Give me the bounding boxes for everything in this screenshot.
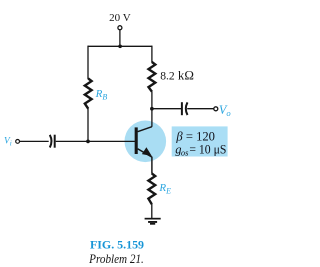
svg-text:Vi: Vi: [4, 136, 12, 147]
transistor Q1 body circle: [125, 121, 167, 163]
node collector output tap dot: [150, 107, 154, 111]
ground: [145, 218, 161, 225]
transistor Q1 base bar: [135, 127, 138, 154]
wire right branch upper: [151, 46, 153, 63]
wire supply lead: [119, 30, 121, 47]
wire RE to ground: [151, 204, 153, 218]
resistor RB: [85, 79, 92, 109]
wire base: [56, 140, 135, 142]
capacitor Co straight plate: [181, 102, 183, 115]
terminal Vi: [16, 140, 20, 144]
svg-text:β = 120: β = 120: [175, 129, 215, 143]
capacitor Ci straight plate: [54, 135, 56, 148]
wire top rail: [88, 45, 152, 47]
wire left branch upper: [87, 46, 89, 79]
transistor Q1 emitter lead: [138, 149, 152, 174]
capacitor Co curved plate: [186, 102, 188, 115]
terminal Vo: [214, 107, 218, 111]
parameter box beta/gos: [172, 126, 228, 156]
wire to output capacitor: [152, 108, 181, 110]
resistor RC 8.2k: [149, 62, 156, 92]
svg-text:FIG. 5.159: FIG. 5.159: [90, 239, 144, 251]
wire right branch middle: [151, 91, 153, 126]
svg-text:8.2kΩ: 8.2kΩ: [160, 69, 194, 83]
transistor Q1 collector lead: [138, 127, 152, 132]
wire capacitor to Vo terminal: [187, 108, 214, 110]
transistor Q1 emitter arrow: [142, 147, 152, 156]
wire left branch lower: [87, 109, 89, 142]
svg-text:20 V: 20 V: [109, 12, 131, 24]
svg-text:Problem 21.: Problem 21.: [88, 252, 144, 266]
node base junction dot: [86, 140, 90, 144]
node top junction dot: [118, 44, 122, 48]
resistor RE: [148, 174, 155, 205]
terminal 20V: [118, 26, 122, 30]
wire Vi to capacitor: [20, 140, 49, 142]
capacitor Ci curved plate: [50, 135, 52, 148]
